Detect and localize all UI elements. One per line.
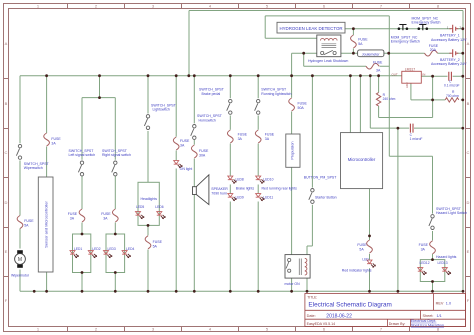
wire propulsion column bbox=[292, 53, 307, 291]
svg-text:5A: 5A bbox=[153, 244, 158, 248]
svg-text:BUTTON_PM_SPST: BUTTON_PM_SPST bbox=[304, 176, 337, 180]
fuse F10 50A propulsion bbox=[289, 98, 308, 111]
fuse F15 3A hazard bbox=[419, 241, 436, 254]
led LED12 bbox=[418, 261, 430, 275]
switch SW3 Right signal switch bbox=[102, 149, 131, 176]
wire 12V accessory rail bbox=[20, 75, 402, 77]
svg-text:FUSE: FUSE bbox=[101, 212, 111, 216]
wire starter column bbox=[307, 76, 312, 255]
wire relay feed bbox=[292, 52, 317, 54]
svg-text:LED1: LED1 bbox=[74, 247, 82, 251]
node junctions on joulemeter and emergency nets bbox=[302, 27, 464, 54]
fuse F2 3A sensor column bbox=[44, 133, 62, 146]
wire long feed vertical bbox=[389, 16, 432, 156]
svg-text:LED4: LED4 bbox=[126, 247, 134, 251]
svg-text:LED6: LED6 bbox=[155, 205, 163, 209]
svg-text:ADJ: ADJ bbox=[405, 82, 409, 88]
led LED8 bbox=[228, 176, 255, 190]
svg-text:1.0: 1.0 bbox=[446, 302, 451, 306]
svg-text:FUSE: FUSE bbox=[180, 139, 190, 143]
svg-text:FUSE: FUSE bbox=[265, 132, 275, 136]
svg-text:5A: 5A bbox=[359, 247, 364, 251]
svg-text:Brake pedal: Brake pedal bbox=[202, 92, 221, 96]
wire fuse3A branch bbox=[304, 53, 390, 66]
svg-text:EasyEDA V5.5.14: EasyEDA V5.5.14 bbox=[307, 322, 336, 326]
wire hazard column bbox=[432, 156, 434, 291]
switch SW9 Hazard Light Switch bbox=[429, 207, 467, 230]
wire brake column bbox=[229, 76, 231, 292]
svg-text:Wipermotor: Wipermotor bbox=[11, 273, 30, 277]
svg-text:3A: 3A bbox=[180, 144, 185, 148]
button SW8 BUTTON_PM_SPST Starter Button bbox=[304, 176, 337, 204]
svg-text:B: B bbox=[467, 101, 470, 106]
svg-text:LED13: LED13 bbox=[438, 261, 448, 265]
svg-text:3A: 3A bbox=[376, 69, 381, 73]
wire led box right signal bbox=[106, 234, 125, 273]
switch SW2 Left signal switch bbox=[69, 149, 96, 176]
relay K1 motor ON bbox=[285, 255, 311, 286]
svg-text:Red indicator lights: Red indicator lights bbox=[342, 269, 372, 273]
box U1 Sensor and Microcontroller bbox=[38, 177, 53, 272]
node signal-branch tee junction bbox=[98, 96, 101, 99]
svg-text:3A: 3A bbox=[421, 247, 426, 251]
fuse F1 5A wiper bbox=[17, 216, 34, 229]
wire R240 net bbox=[379, 76, 433, 118]
wire running lights column bbox=[257, 76, 259, 292]
wire horn column bbox=[193, 76, 195, 292]
wire top feed drop bbox=[188, 11, 190, 76]
wire indicator drop bbox=[397, 128, 399, 291]
wire ADJ net bbox=[411, 83, 463, 100]
svg-text:LED8: LED8 bbox=[236, 178, 244, 182]
svg-text:Hornswitch: Hornswitch bbox=[199, 118, 216, 122]
wire micro top pins bbox=[350, 76, 360, 133]
svg-text:Accessory Battery 24V: Accessory Battery 24V bbox=[431, 62, 467, 66]
fuse F4 3A right signal bbox=[101, 209, 118, 222]
svg-text:Electrical Dept.: Electrical Dept. bbox=[411, 319, 437, 323]
svg-text:OUT: OUT bbox=[392, 72, 398, 76]
svg-text:700 ohm: 700 ohm bbox=[446, 94, 459, 98]
svg-text:Wiperswitch: Wiperswitch bbox=[24, 166, 43, 170]
wire left signal column bbox=[81, 98, 83, 292]
svg-text:Electrical Schematic Diagram: Electrical Schematic Diagram bbox=[308, 302, 391, 309]
node junctions on 12V accessory rail bbox=[45, 74, 380, 77]
wire headlight box bbox=[138, 182, 159, 225]
wire LM317 in net bbox=[421, 75, 463, 77]
wire cap1 net bbox=[370, 76, 463, 128]
led LED1 bbox=[70, 247, 82, 258]
capacitor C2 1 microF bbox=[410, 124, 423, 141]
svg-text:Hydrogen Leak Shutdown: Hydrogen Leak Shutdown bbox=[308, 59, 348, 63]
svg-text:240 ohm: 240 ohm bbox=[383, 97, 396, 101]
regulator U6 LM317 bbox=[392, 67, 426, 88]
led LED2 bbox=[88, 247, 100, 258]
resistor R2 700 ohm bbox=[445, 90, 459, 102]
fuse F13 3A horizontal feed bbox=[366, 60, 383, 72]
node junctions on regulator nets bbox=[368, 75, 464, 293]
svg-text:Sheet:: Sheet: bbox=[423, 314, 434, 318]
svg-text:LED9: LED9 bbox=[236, 195, 244, 199]
wire signal tee bbox=[82, 76, 115, 98]
speaker LS1 7090 horn bbox=[193, 175, 229, 205]
battery BT1 Accessory Battery 12V bbox=[431, 25, 467, 42]
switch SW6 Brake pedal bbox=[199, 88, 232, 115]
battery BT2 Accessory Battery 24V bbox=[431, 49, 467, 66]
capacitor C1 0.1 microF bbox=[444, 72, 460, 88]
svg-text:Date:: Date: bbox=[307, 314, 316, 318]
led LED3 bbox=[104, 247, 116, 258]
svg-text:Shell Eco Marathon: Shell Eco Marathon bbox=[411, 324, 444, 328]
svg-text:LED5: LED5 bbox=[136, 205, 144, 209]
svg-text:Drawn By:: Drawn By: bbox=[389, 322, 406, 326]
node junctions on bottom ground rail bbox=[33, 290, 434, 293]
wire wiper column bbox=[19, 76, 21, 292]
wire top feed bbox=[189, 10, 463, 12]
svg-text:E: E bbox=[5, 249, 8, 254]
svg-text:LED10: LED10 bbox=[263, 178, 273, 182]
svg-text:FUSE: FUSE bbox=[358, 37, 368, 41]
led LED13 bbox=[438, 261, 452, 275]
svg-text:LED: LED bbox=[362, 258, 369, 262]
switch SW7 Running lightswitch bbox=[255, 88, 292, 115]
fuse F7 30A horn bbox=[191, 145, 209, 158]
box U3 Microcontroller bbox=[341, 133, 383, 189]
svg-text:3A: 3A bbox=[265, 137, 270, 141]
svg-text:Joulemeter: Joulemeter bbox=[362, 52, 381, 56]
wire sensor column bbox=[46, 76, 48, 292]
svg-text:IN: IN bbox=[422, 72, 425, 76]
svg-text:C: C bbox=[5, 150, 8, 155]
svg-text:LM317: LM317 bbox=[405, 67, 415, 71]
wire emergency switch net bbox=[345, 28, 463, 30]
svg-text:Emergency Switch: Emergency Switch bbox=[412, 21, 441, 25]
svg-text:C: C bbox=[467, 150, 470, 155]
fuse F9 3A running bbox=[255, 130, 274, 143]
svg-text:Headlights: Headlights bbox=[141, 197, 158, 201]
svg-text:FUSE: FUSE bbox=[24, 219, 34, 223]
wire led box hazard bbox=[420, 260, 445, 282]
svg-text:TITLE:: TITLE: bbox=[307, 295, 317, 299]
svg-text:LED2: LED2 bbox=[92, 247, 100, 251]
led LED6 bbox=[155, 205, 165, 219]
svg-text:3A: 3A bbox=[70, 216, 75, 220]
svg-text:Hazard Light Switch: Hazard Light Switch bbox=[436, 211, 467, 215]
svg-text:20A: 20A bbox=[430, 48, 437, 52]
wire emergency fuse branch bbox=[352, 29, 354, 54]
resistor R1 240 ohm bbox=[376, 93, 395, 106]
wire hydrogen box net bbox=[265, 16, 389, 38]
svg-text:FUSE: FUSE bbox=[373, 60, 383, 64]
led LED14 red indicator bbox=[342, 258, 376, 273]
node junctions at LED box taps bbox=[81, 224, 434, 283]
wire joulemeter net bbox=[341, 52, 463, 54]
node Hazard lights label bbox=[436, 255, 457, 259]
svg-text:3A: 3A bbox=[103, 216, 108, 220]
fuse F12 5A emergency branch bbox=[351, 35, 369, 48]
button SB2 MOM_SPST_NC Emergency Switch 2 bbox=[412, 16, 441, 30]
svg-text:B: B bbox=[5, 101, 8, 106]
led LED11 bbox=[256, 194, 274, 202]
led LED10 bbox=[256, 176, 297, 190]
svg-text:Starter Button: Starter Button bbox=[315, 196, 337, 200]
svg-text:Sensor and Microcontroller: Sensor and Microcontroller bbox=[44, 201, 49, 248]
svg-text:Red running rear lights: Red running rear lights bbox=[262, 186, 298, 190]
wire right ground rail bbox=[462, 11, 464, 292]
svg-text:A: A bbox=[5, 41, 8, 46]
wire right signal column bbox=[114, 98, 116, 292]
svg-text:5A: 5A bbox=[24, 224, 29, 228]
switch SW5 Hornswitch bbox=[191, 114, 223, 139]
fuse F5 5A headlights bbox=[145, 236, 162, 249]
button SB1 MOM_SPST_NC Emergency Switch 1 bbox=[391, 25, 420, 44]
svg-text:Right signal switch: Right signal switch bbox=[102, 153, 131, 157]
svg-text:M: M bbox=[18, 257, 22, 263]
svg-text:REV: REV bbox=[436, 302, 444, 306]
fuse F8 3A brake bbox=[227, 130, 247, 143]
svg-text:Propulsion: Propulsion bbox=[290, 141, 295, 159]
motor M1 Wipermotor bbox=[11, 250, 30, 277]
led LED5 bbox=[136, 205, 145, 219]
svg-text:FUSE: FUSE bbox=[68, 212, 78, 216]
svg-text:FUSE: FUSE bbox=[357, 243, 367, 247]
fuse F11 5A indicator bbox=[357, 240, 372, 253]
svg-text:Lightswitch: Lightswitch bbox=[153, 108, 170, 112]
relay K2 Hydrogen Leak Shutdown bbox=[308, 35, 348, 63]
svg-text:2018-06-22: 2018-06-22 bbox=[326, 314, 352, 320]
box U2 Propulsion bbox=[286, 134, 300, 167]
svg-text:7090 horn: 7090 horn bbox=[211, 191, 227, 195]
svg-text:Accessory Battery 12V: Accessory Battery 12V bbox=[431, 38, 467, 42]
svg-text:E: E bbox=[467, 249, 470, 254]
svg-text:FUSE: FUSE bbox=[51, 137, 61, 141]
svg-text:Left signal switch: Left signal switch bbox=[69, 153, 96, 157]
svg-text:D: D bbox=[467, 200, 470, 205]
svg-text:FUSE: FUSE bbox=[419, 243, 429, 247]
node Headlights label bbox=[141, 197, 158, 201]
svg-text:Brake lights: Brake lights bbox=[236, 186, 255, 190]
box U5 Joulemeter bbox=[358, 50, 384, 57]
svg-text:ON light: ON light bbox=[180, 167, 193, 171]
svg-text:FUSE: FUSE bbox=[199, 149, 209, 153]
svg-text:motor ON: motor ON bbox=[285, 282, 301, 286]
svg-text:Running lightswitch: Running lightswitch bbox=[261, 92, 291, 96]
svg-text:5A: 5A bbox=[358, 42, 363, 46]
svg-text:LED11: LED11 bbox=[263, 195, 273, 199]
svg-text:FUSE: FUSE bbox=[238, 132, 248, 136]
wire led box left signal bbox=[73, 234, 91, 273]
wire micro bottom column bbox=[369, 189, 371, 292]
svg-text:Hazard lights: Hazard lights bbox=[436, 255, 457, 259]
led LED4 bbox=[122, 247, 134, 258]
svg-text:A: A bbox=[467, 41, 470, 46]
svg-text:D: D bbox=[5, 200, 8, 205]
svg-text:LED12: LED12 bbox=[420, 261, 430, 265]
box U4 HYDROGEN LEAK DETECTOR bbox=[277, 22, 345, 33]
svg-text:HYDROGEN LEAK DETECTOR: HYDROGEN LEAK DETECTOR bbox=[279, 26, 342, 31]
title block bbox=[305, 294, 466, 327]
svg-text:LED3: LED3 bbox=[108, 247, 116, 251]
wire lightswitch column bbox=[147, 76, 149, 292]
fuse F6 3A ON light bbox=[173, 137, 190, 150]
svg-text:30A: 30A bbox=[199, 154, 206, 158]
svg-text:0.1 microF: 0.1 microF bbox=[444, 83, 460, 87]
svg-text:Emergency Switch: Emergency Switch bbox=[391, 40, 420, 44]
svg-text:FUSE: FUSE bbox=[298, 102, 308, 106]
led LED7 ON light bbox=[174, 161, 193, 172]
svg-text:1 microF: 1 microF bbox=[410, 137, 423, 141]
led LED9 bbox=[228, 194, 244, 202]
wire bottom ground rail bbox=[20, 290, 463, 292]
svg-text:FUSE: FUSE bbox=[153, 240, 163, 244]
svg-text:Microcontroller: Microcontroller bbox=[348, 157, 376, 162]
svg-text:1/1: 1/1 bbox=[437, 314, 442, 318]
switch SW1 SWITCH_SPST Wiperswitch bbox=[16, 144, 49, 169]
wire ON light column bbox=[175, 76, 177, 292]
fuse F14 20A horizontal bbox=[425, 44, 439, 56]
switch SW4 Lightswitch bbox=[144, 104, 176, 130]
fuse F3 3A left signal bbox=[68, 209, 85, 222]
svg-text:50A: 50A bbox=[298, 106, 305, 110]
svg-text:3A: 3A bbox=[51, 142, 56, 146]
svg-text:3A: 3A bbox=[238, 137, 243, 141]
